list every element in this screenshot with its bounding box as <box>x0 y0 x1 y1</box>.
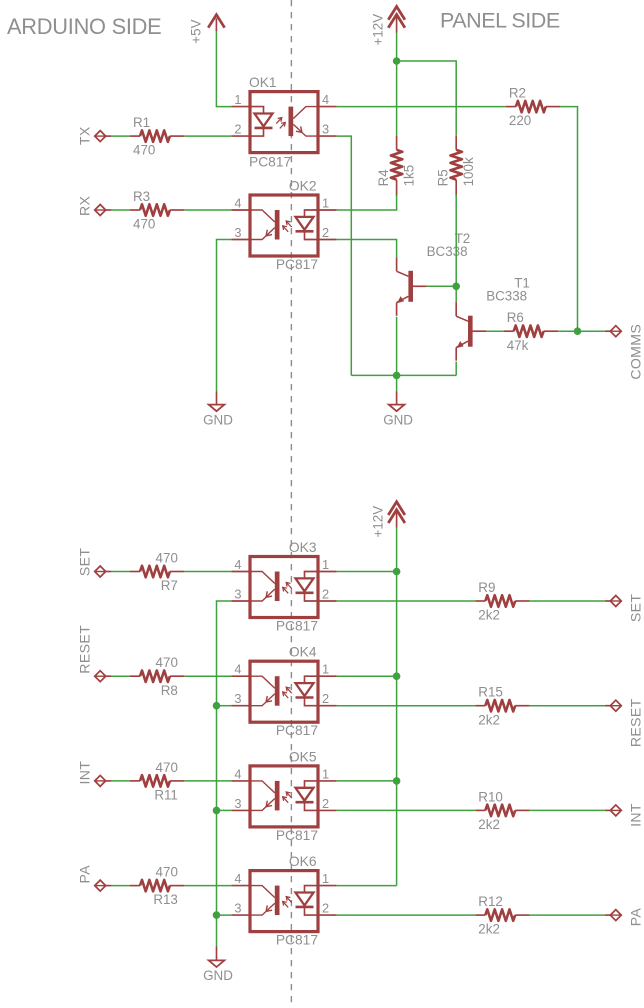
wire OK3 pin 3 to GND column <box>217 601 232 947</box>
T1 emitter with arrow <box>456 341 468 347</box>
port SET (panel side) <box>605 594 644 623</box>
svg-text:470: 470 <box>156 551 178 566</box>
svg-text:470: 470 <box>156 760 178 775</box>
svg-text:SET: SET <box>628 594 644 623</box>
wire TX to R1 <box>111 135 130 137</box>
svg-text:4: 4 <box>234 557 241 572</box>
svg-text:3: 3 <box>234 225 241 240</box>
port RX <box>76 195 111 216</box>
svg-text:1: 1 <box>322 557 329 572</box>
wire node to T1 collector <box>455 286 457 302</box>
svg-text:OK1: OK1 <box>249 75 277 90</box>
svg-text:GND: GND <box>383 412 413 427</box>
svg-text:47k: 47k <box>507 338 529 353</box>
svg-text:1k5: 1k5 <box>402 165 417 187</box>
T2 body <box>397 271 409 276</box>
OK5 package outline <box>250 766 318 827</box>
resistor R4 1k5 <box>376 136 417 196</box>
svg-text:R13: R13 <box>153 892 178 907</box>
wire R15 to port <box>530 705 605 707</box>
svg-text:R6: R6 <box>507 310 524 325</box>
wire OK6 pin 1 to +12V rail <box>337 885 397 887</box>
svg-text:2k2: 2k2 <box>478 712 500 727</box>
wire +12V stem <box>396 33 398 62</box>
wire OK5 pin 3 to GND column <box>217 809 232 811</box>
OK4 phototransistor <box>275 676 280 706</box>
OK2 LED <box>305 210 319 217</box>
port INT (arduino side) <box>76 761 111 787</box>
svg-text:1: 1 <box>322 196 329 211</box>
svg-text:1: 1 <box>322 766 329 781</box>
svg-text:PC817: PC817 <box>276 933 318 948</box>
svg-text:PA: PA <box>628 908 644 927</box>
wire INT to R11 <box>111 780 130 782</box>
junction +12V split <box>393 57 401 65</box>
svg-text:GND: GND <box>203 968 233 983</box>
OK5 pin stubs <box>231 780 250 782</box>
wire R9 to port <box>530 600 605 602</box>
wire PA to R13 <box>111 885 130 887</box>
+12V supply symbol (lower) <box>371 502 405 538</box>
port RESET (arduino side) <box>76 625 111 682</box>
svg-text:OK4: OK4 <box>289 645 317 660</box>
wire T1 emitter to rail <box>455 362 457 376</box>
OK3 package outline <box>250 557 318 618</box>
resistor R3 470 <box>130 189 185 232</box>
resistor R13 470 <box>130 865 185 908</box>
wire R1 to OK1 pin 2 <box>185 135 232 137</box>
svg-text:BC338: BC338 <box>486 289 527 304</box>
optocoupler OK4 PC817 <box>231 645 336 739</box>
svg-text:PC817: PC817 <box>249 155 291 170</box>
svg-text:3: 3 <box>234 691 241 706</box>
svg-text:1: 1 <box>322 662 329 677</box>
port RESET (panel side) <box>605 698 644 747</box>
resistor R11 470 <box>130 760 185 803</box>
svg-text:ARDUINO SIDE: ARDUINO SIDE <box>7 14 161 39</box>
junction GND column at OK6 <box>213 911 221 919</box>
svg-text:4: 4 <box>234 662 241 677</box>
resistor R10 2k2 <box>475 789 530 832</box>
OK6 light emission arrows <box>286 897 292 903</box>
svg-text:2k2: 2k2 <box>478 608 500 623</box>
OK3 light emission arrows <box>286 583 292 589</box>
OK6 package outline <box>250 871 318 932</box>
wire OK4 pin 3 to GND column <box>217 705 232 707</box>
svg-text:PA: PA <box>76 865 92 884</box>
wire OK5 pin 1 to +12V rail <box>337 780 397 782</box>
svg-text:2: 2 <box>322 901 329 916</box>
port INT (panel side) <box>605 803 644 827</box>
wire R10 to port <box>530 809 605 811</box>
wire COMMS node to port <box>578 330 605 332</box>
T2 collector lead <box>396 257 398 271</box>
svg-text:OK3: OK3 <box>289 540 317 555</box>
OK1 LED <box>250 107 264 114</box>
wire R6 to COMMS node <box>558 330 577 332</box>
wire R8 to OK4 pin 4 <box>185 675 232 677</box>
OK1 light emission arrows <box>276 118 282 124</box>
svg-text:+5V: +5V <box>188 19 203 43</box>
OK3 LED <box>305 572 319 579</box>
svg-text:2k2: 2k2 <box>478 922 500 937</box>
svg-text:R3: R3 <box>133 189 150 204</box>
T2 emitter with arrow <box>397 296 409 302</box>
wire T2 base to node <box>427 285 456 287</box>
svg-text:2k2: 2k2 <box>478 817 500 832</box>
wire R12 to port <box>530 914 605 916</box>
OK2 package outline <box>250 195 318 256</box>
OK5 light emission arrows <box>286 792 292 798</box>
svg-text:2: 2 <box>234 122 241 137</box>
wire RESET to R8 <box>111 675 130 677</box>
svg-text:RX: RX <box>76 195 92 216</box>
svg-text:470: 470 <box>133 143 155 158</box>
transistor T1 BC338 <box>456 276 530 361</box>
OK1 phototransistor <box>289 107 294 137</box>
optocoupler OK3 PC817 <box>231 540 336 634</box>
+12V supply symbol (top) <box>371 7 405 46</box>
svg-text:R7: R7 <box>161 578 178 593</box>
svg-text:PC817: PC817 <box>276 828 318 843</box>
svg-text:BC338: BC338 <box>427 244 468 259</box>
wire OK3 pin 1 to +12V rail <box>337 571 397 573</box>
port PA (arduino side) <box>76 865 111 891</box>
svg-text:2: 2 <box>322 587 329 602</box>
T1 collector lead <box>455 302 457 316</box>
OK3 pin stubs <box>231 571 250 573</box>
resistor R2 220 <box>506 86 561 129</box>
junction ground rail <box>393 372 401 380</box>
svg-text:2: 2 <box>322 796 329 811</box>
svg-text:1: 1 <box>234 92 241 107</box>
junction +12V rail at OK3 <box>393 568 401 576</box>
wire +5V to OK1 pin 1 <box>216 31 231 107</box>
junction T2 base / R5 / T1 collector <box>452 283 460 291</box>
resistor R6 47k <box>504 310 559 353</box>
svg-text:3: 3 <box>234 796 241 811</box>
svg-text:PC817: PC817 <box>276 257 318 272</box>
svg-text:R5: R5 <box>436 169 451 186</box>
svg-text:OK5: OK5 <box>289 749 317 764</box>
junction +12V rail at OK4 <box>393 672 401 680</box>
svg-text:INT: INT <box>76 761 92 785</box>
wire GND stem (lower) <box>216 947 218 961</box>
junction COMMS node <box>574 327 582 335</box>
wire OK4 pin 2 to R15 <box>337 705 476 707</box>
wire OK2 pin 3 to GND <box>217 240 232 392</box>
wire OK3 pin 2 to R9 <box>337 600 476 602</box>
resistor R12 2k2 <box>475 894 530 937</box>
wire T2 emitter to rail <box>396 317 398 376</box>
isolation boundary (dashed divider) <box>290 0 292 1008</box>
svg-text:4: 4 <box>234 871 241 886</box>
OK6 pin stubs <box>231 885 250 887</box>
svg-text:RESET: RESET <box>628 698 644 747</box>
wire OK4 pin 1 to +12V rail <box>337 675 397 677</box>
svg-text:470: 470 <box>156 655 178 670</box>
OK4 light emission arrows <box>286 687 292 693</box>
junction GND column at OK4 <box>213 702 221 710</box>
svg-text:470: 470 <box>133 217 155 232</box>
wire R2 to COMMS line <box>560 107 577 332</box>
svg-text:3: 3 <box>234 901 241 916</box>
wire R4 to OK2 pin 1 <box>337 194 397 210</box>
OK2 light emission arrows <box>286 221 292 227</box>
wire OK1 pin 4 to R2 <box>337 106 506 108</box>
svg-text:COMMS: COMMS <box>628 324 644 380</box>
wire OK2 pin 2 to T2 collector <box>337 240 397 258</box>
OK5 LED <box>305 781 319 788</box>
svg-text:PC817: PC817 <box>276 723 318 738</box>
svg-text:220: 220 <box>509 113 531 128</box>
optocoupler OK6 PC817 <box>231 854 336 948</box>
svg-text:100k: 100k <box>461 157 476 186</box>
svg-text:R8: R8 <box>161 683 178 698</box>
OK3 phototransistor <box>275 572 280 602</box>
svg-text:+12V: +12V <box>371 506 386 538</box>
svg-text:R12: R12 <box>478 894 503 909</box>
svg-text:470: 470 <box>156 865 178 880</box>
OK2 pin stubs <box>231 209 250 211</box>
OK2 phototransistor <box>275 210 280 240</box>
resistor R8 470 <box>130 655 185 698</box>
wire T1 base to R6 <box>486 330 503 332</box>
svg-text:R10: R10 <box>478 789 503 804</box>
ground GND (arduino side) <box>203 405 233 428</box>
wire OK1 pin 3 to ground rail <box>337 136 352 375</box>
svg-text:R4: R4 <box>376 169 391 187</box>
svg-text:R15: R15 <box>478 685 503 700</box>
wire R13 to OK6 pin 4 <box>185 885 232 887</box>
wire R11 to OK5 pin 4 <box>185 780 232 782</box>
OK6 phototransistor <box>275 886 280 916</box>
svg-text:4: 4 <box>234 766 241 781</box>
svg-text:GND: GND <box>203 412 233 427</box>
svg-text:2: 2 <box>322 691 329 706</box>
wire GND stem (panel) <box>396 392 398 405</box>
svg-text:TX: TX <box>76 126 92 145</box>
port SET (arduino side) <box>76 548 111 577</box>
OK1 pin stubs <box>231 106 250 108</box>
wire +12V to R4 <box>396 61 398 136</box>
svg-text:RESET: RESET <box>76 625 92 674</box>
svg-text:4: 4 <box>234 196 241 211</box>
wire +12V rail (lower) <box>396 528 398 886</box>
port PA (panel side) <box>605 908 644 927</box>
wire OK6 pin 3 to GND column <box>217 914 232 916</box>
wire R5 to node <box>455 194 457 286</box>
optocoupler OK1 PC817 <box>231 75 336 170</box>
wire R3 to OK2 pin 4 <box>185 209 232 211</box>
OK4 LED <box>305 676 319 683</box>
+5V supply symbol <box>188 15 224 44</box>
svg-text:3: 3 <box>322 122 329 137</box>
wire R7 to OK3 pin 4 <box>185 571 232 573</box>
OK6 LED <box>305 886 319 893</box>
wire rail to GND (panel) <box>396 375 398 391</box>
ground GND (panel side) <box>383 405 413 428</box>
svg-text:R1: R1 <box>133 115 150 130</box>
svg-text:PANEL SIDE: PANEL SIDE <box>440 9 560 33</box>
wire OK5 pin 2 to R10 <box>337 809 476 811</box>
optocoupler OK5 PC817 <box>231 749 336 843</box>
junction GND column at OK5 <box>213 807 221 815</box>
resistor R9 2k2 <box>475 580 530 623</box>
resistor R7 470 <box>130 551 185 594</box>
svg-text:1: 1 <box>322 871 329 886</box>
svg-text:OK2: OK2 <box>289 179 317 194</box>
svg-text:INT: INT <box>628 803 644 827</box>
OK5 phototransistor <box>275 781 280 811</box>
junction +12V rail at OK5 <box>393 777 401 785</box>
svg-text:+12V: +12V <box>371 14 386 46</box>
wire GND stem (arduino) <box>216 392 218 405</box>
resistor R15 2k2 <box>475 685 530 728</box>
wire SET to R7 <box>111 571 130 573</box>
wire +12V to R5 <box>397 61 457 136</box>
T1 body <box>456 316 468 321</box>
svg-text:R11: R11 <box>154 788 178 803</box>
OK1 package outline <box>250 92 318 153</box>
transistor T2 BC338 <box>397 231 471 316</box>
wire OK6 pin 2 to R12 <box>337 914 476 916</box>
svg-text:R2: R2 <box>509 86 526 101</box>
svg-text:SET: SET <box>76 548 92 577</box>
port COMMS <box>605 324 644 380</box>
svg-text:2: 2 <box>322 225 329 240</box>
svg-text:OK6: OK6 <box>289 854 317 869</box>
svg-text:3: 3 <box>234 587 241 602</box>
optocoupler OK2 PC817 <box>231 179 336 273</box>
OK4 pin stubs <box>231 675 250 677</box>
ground GND (lower) <box>203 960 233 983</box>
resistor R1 470 <box>130 115 185 158</box>
wire ground rail <box>351 374 456 376</box>
wire RX to R3 <box>111 209 130 211</box>
port TX <box>76 126 111 145</box>
svg-text:PC817: PC817 <box>276 619 318 634</box>
OK4 package outline <box>250 661 318 722</box>
resistor R5 100k <box>436 136 477 196</box>
svg-text:R9: R9 <box>478 580 495 595</box>
svg-text:4: 4 <box>322 92 329 107</box>
